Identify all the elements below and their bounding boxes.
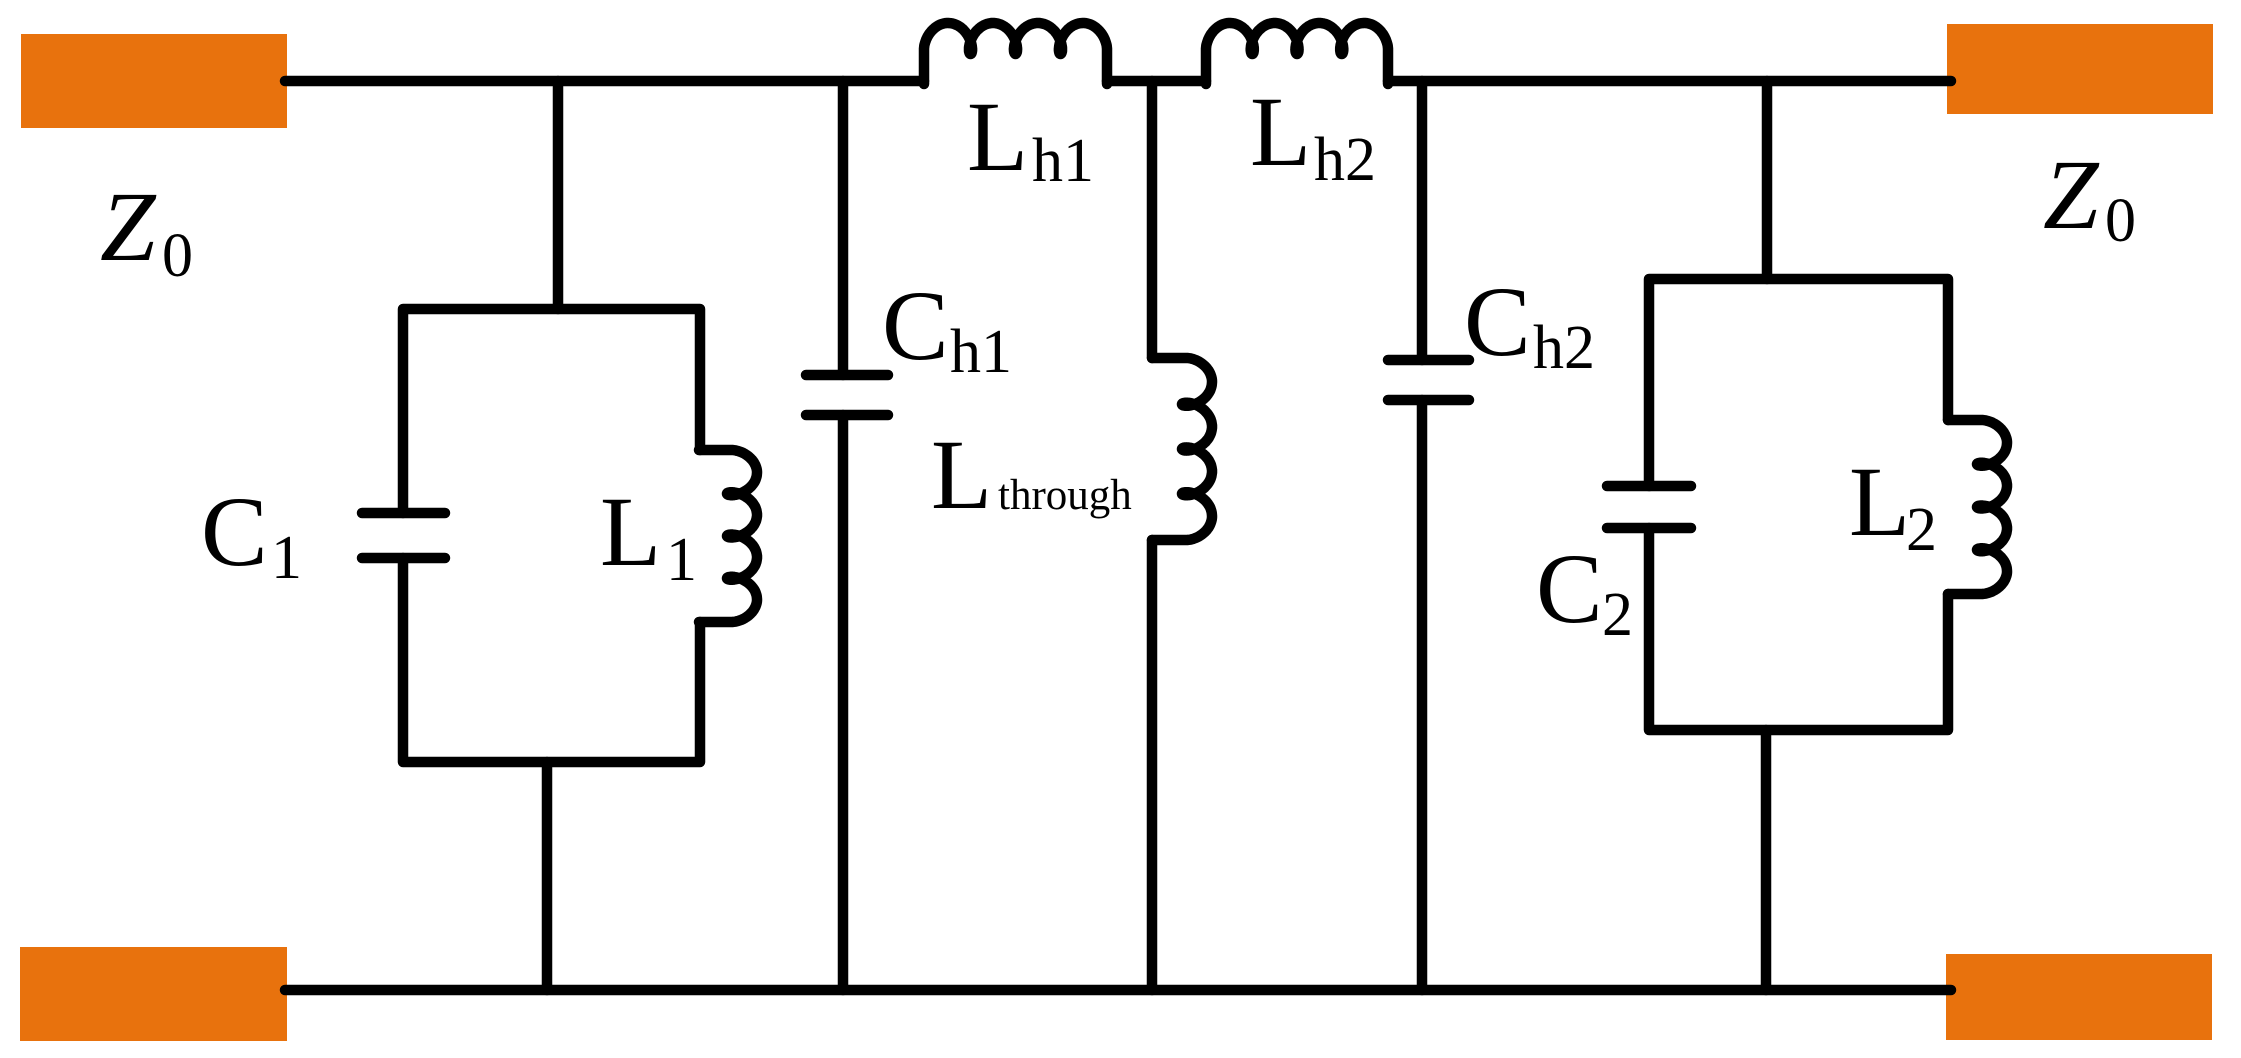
resonator block 2 outline — [1649, 279, 1948, 730]
inductor Lthrough — [1152, 358, 1212, 540]
wire branch Ch1 bottom — [838, 415, 849, 990]
wire branch2 bottom — [1761, 730, 1772, 990]
port rect bottom-left — [20, 947, 287, 1041]
capacitor Ch1 — [806, 375, 888, 415]
svg-text:h1: h1 — [1032, 127, 1094, 195]
svg-text:L: L — [600, 476, 661, 587]
inductor Lh2 — [1206, 23, 1388, 84]
wire branch1 top — [553, 81, 564, 309]
inductor L2 — [1948, 420, 2007, 594]
port rect top-left — [21, 34, 287, 128]
port rect top-right — [1947, 24, 2213, 114]
wire branch Ch2 bottom — [1417, 400, 1428, 990]
svg-text:C: C — [201, 476, 268, 587]
svg-text:2: 2 — [1906, 496, 1937, 564]
wire branch Lthrough top — [1147, 81, 1158, 358]
capacitor C1 — [362, 513, 445, 558]
svg-text:L: L — [1250, 76, 1311, 187]
svg-text:1: 1 — [271, 524, 302, 592]
svg-text:1: 1 — [666, 526, 697, 594]
wire top-right — [1388, 76, 1951, 87]
svg-text:C: C — [1464, 266, 1531, 377]
svg-text:h2: h2 — [1533, 314, 1595, 382]
wire bottom — [285, 985, 1951, 996]
svg-text:2: 2 — [1602, 581, 1633, 649]
inductor Lh1 — [924, 23, 1107, 84]
svg-text:through: through — [998, 472, 1132, 519]
capacitor C2 — [1607, 486, 1691, 528]
wire branch2 top — [1762, 81, 1773, 279]
wire between Lh1 and Lh2 — [1107, 76, 1206, 87]
svg-text:0: 0 — [162, 222, 193, 290]
svg-text:0: 0 — [2105, 187, 2136, 255]
wire branch Ch1 top — [838, 81, 849, 375]
svg-text:L: L — [967, 81, 1028, 192]
port rect bottom-right — [1946, 954, 2212, 1040]
svg-text:L: L — [1849, 446, 1910, 557]
capacitor Ch2 — [1388, 360, 1469, 400]
svg-text:h1: h1 — [950, 318, 1012, 386]
wire top-left — [285, 76, 924, 87]
svg-text:L: L — [931, 419, 992, 530]
svg-text:C: C — [1536, 533, 1603, 644]
wire branch1 bottom — [542, 762, 553, 990]
inductor L1 — [699, 450, 757, 622]
wire branch Ch2 top — [1417, 81, 1428, 360]
resonator block 1 outline — [403, 309, 700, 762]
svg-text:h2: h2 — [1314, 126, 1376, 194]
svg-text:C: C — [882, 270, 949, 381]
svg-text:Z: Z — [2043, 139, 2100, 250]
wire branch Lthrough bottom — [1147, 540, 1158, 990]
svg-text:Z: Z — [100, 171, 157, 282]
